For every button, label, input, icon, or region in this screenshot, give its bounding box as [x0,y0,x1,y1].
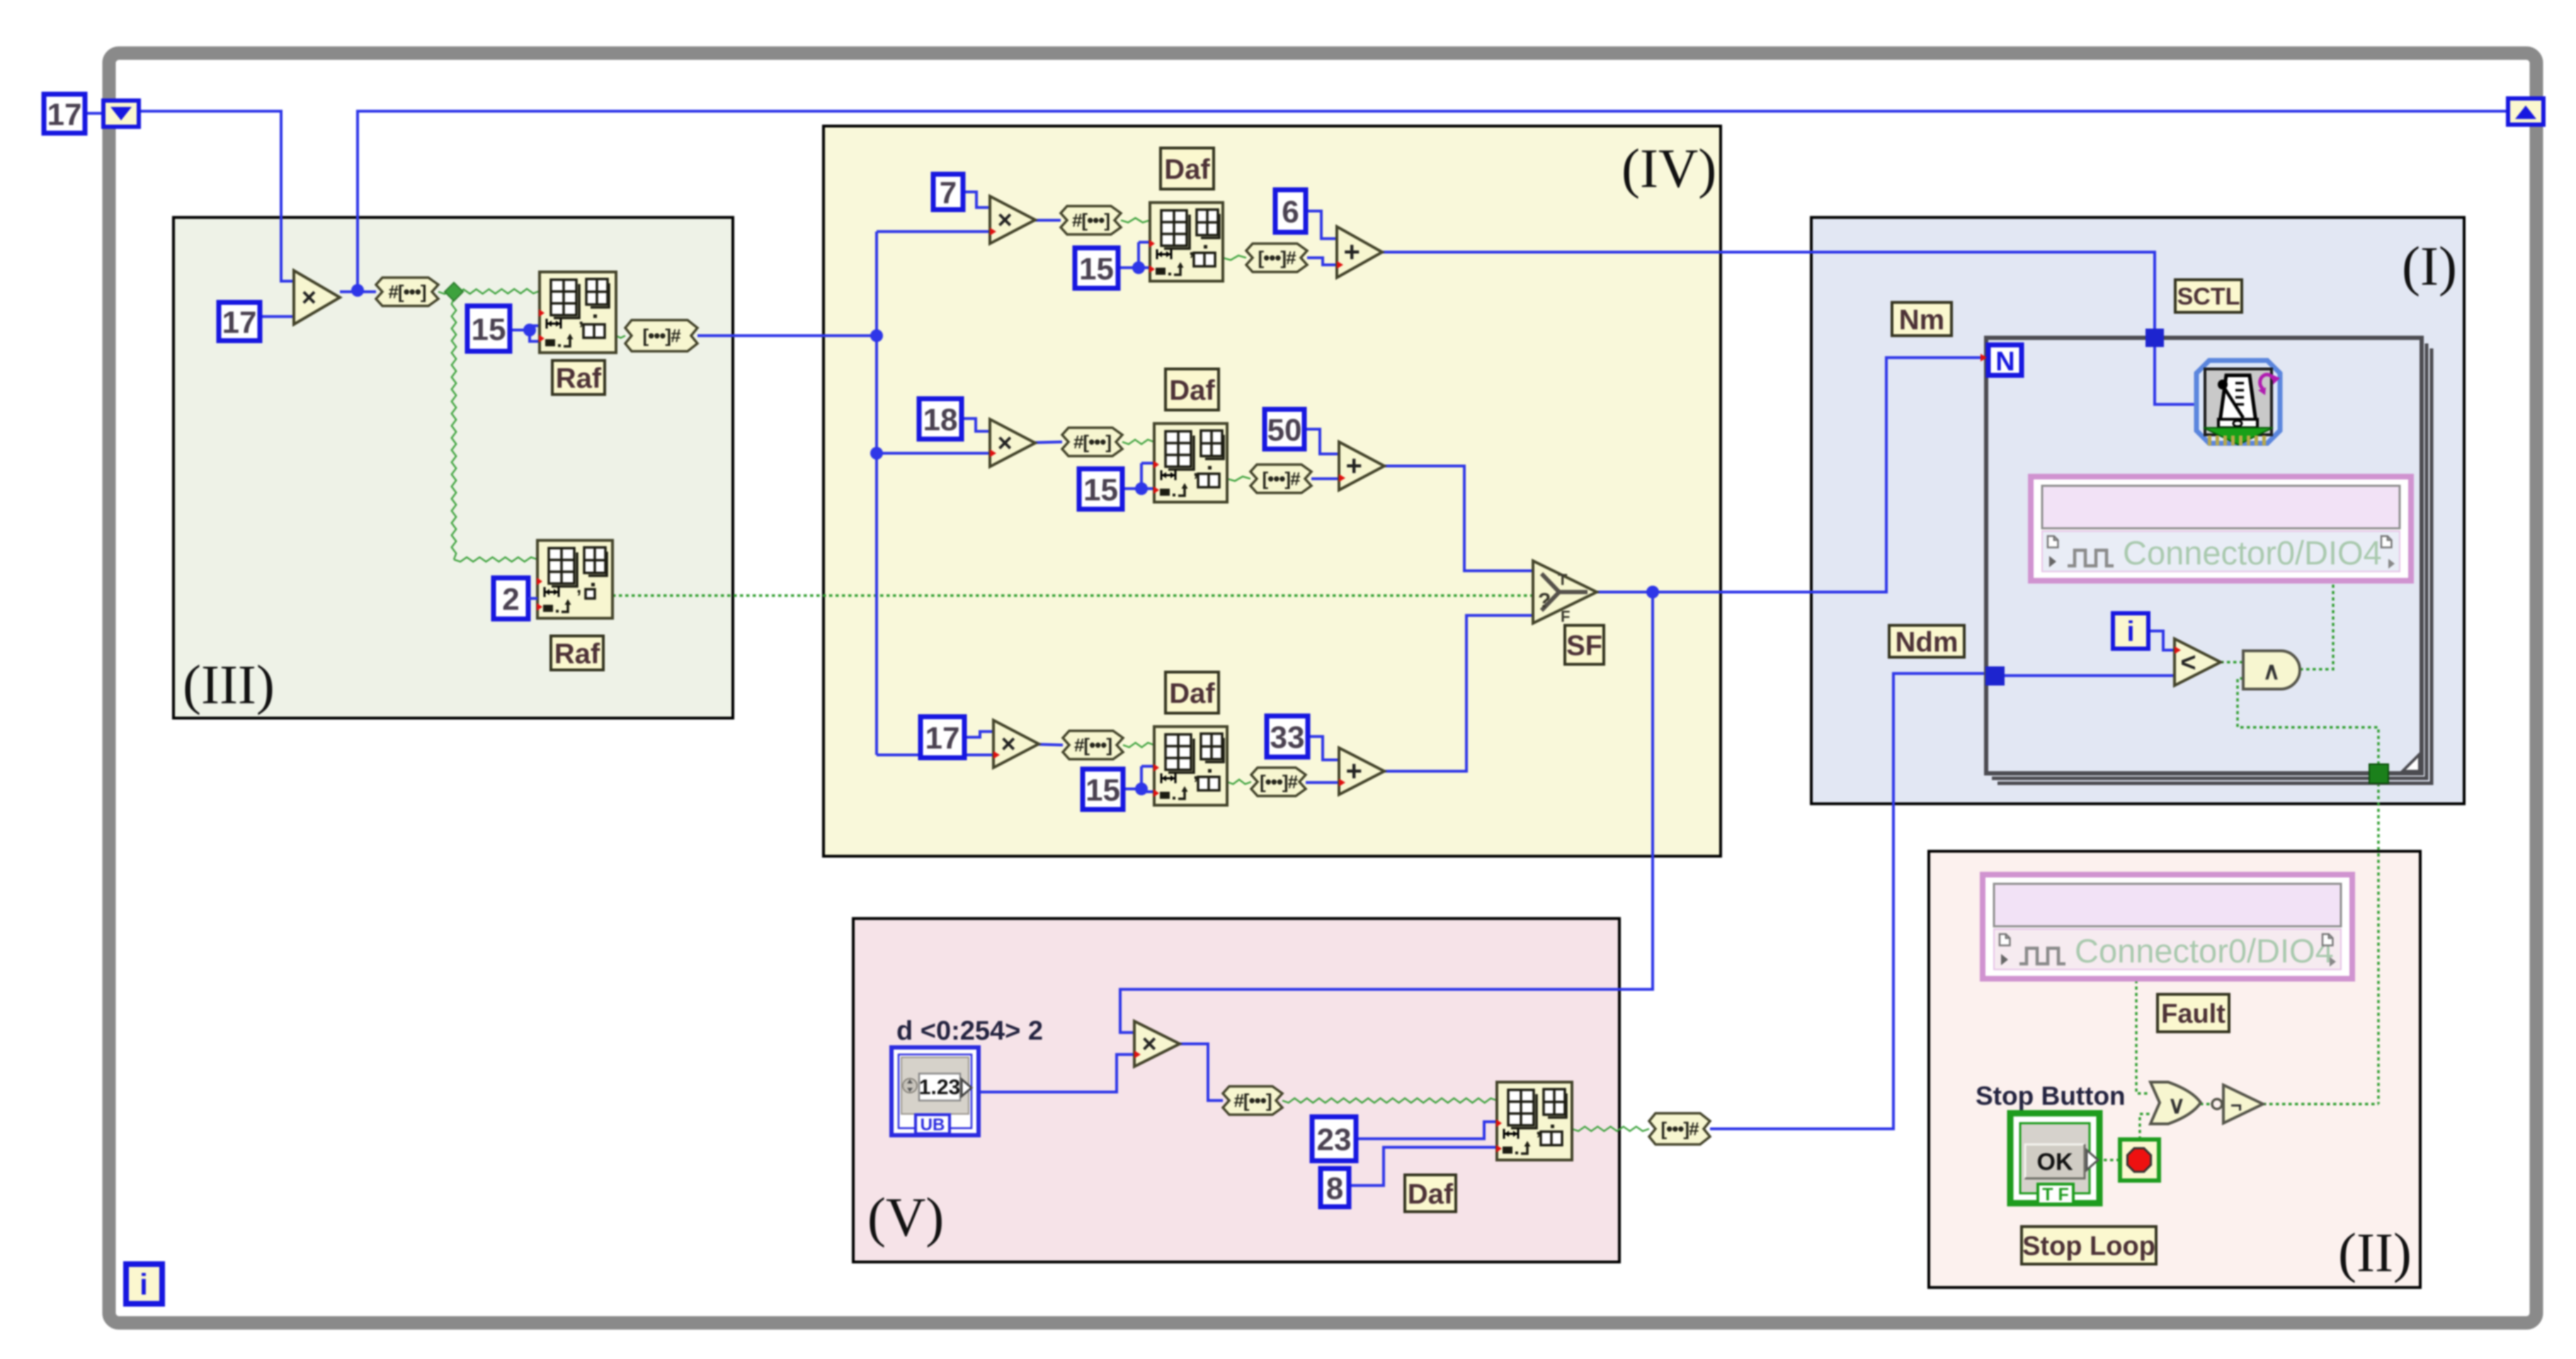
svg-text:Ndm: Ndm [1896,627,1959,658]
svg-text:d <0:254> 2: d <0:254> 2 [896,1016,1043,1046]
svg-text:17: 17 [222,305,257,340]
svg-text:×: × [302,283,317,312]
svg-text:F: F [1561,608,1570,625]
svg-text:?: ? [1538,589,1551,613]
svg-text:[•••]#: [•••]# [642,325,681,346]
svg-text:×: × [998,428,1013,457]
svg-text:15: 15 [1085,773,1120,807]
svg-text:23: 23 [1317,1122,1352,1157]
svg-text:SCTL: SCTL [2177,283,2240,310]
svg-text:,: , [576,576,581,597]
svg-text:×: × [1142,1029,1157,1058]
svg-text:+: + [1345,450,1362,482]
svg-text:[•••]#: [•••]# [1258,247,1296,268]
svg-text:OK: OK [2037,1149,2073,1176]
svg-text:Stop Button: Stop Button [1976,1081,2126,1110]
svg-text:(V): (V) [867,1186,944,1248]
svg-text:∨: ∨ [2168,1092,2186,1119]
svg-text:#[•••]: #[•••] [1233,1090,1271,1111]
svg-text:Connector0/DIO4: Connector0/DIO4 [2075,932,2334,970]
svg-text:[•••]#: [•••]# [1262,468,1301,489]
svg-text:6: 6 [1282,195,1299,229]
svg-text:15: 15 [1083,472,1118,507]
svg-text:(I): (I) [2402,235,2457,297]
svg-text:×: × [1001,729,1016,758]
svg-text:Daf: Daf [1164,154,1210,185]
svg-text:Connector0/DIO4: Connector0/DIO4 [2123,534,2382,572]
svg-text:Fault: Fault [2161,999,2225,1029]
svg-text:Nm: Nm [1899,305,1944,336]
svg-text:#[•••]: #[•••] [1073,431,1111,453]
svg-text:SF: SF [1566,630,1602,661]
svg-text:<: < [2180,648,2196,678]
svg-text:17: 17 [925,721,960,756]
svg-text:Raf: Raf [556,363,602,394]
svg-text:#[•••]: #[•••] [1072,210,1110,231]
svg-text:UB: UB [921,1115,945,1135]
svg-text:+: + [1345,756,1362,787]
svg-text:18: 18 [923,402,958,437]
svg-text:1.23: 1.23 [919,1076,960,1099]
svg-text:Daf: Daf [1408,1178,1454,1210]
svg-text:i: i [2126,616,2134,647]
svg-text:N: N [1995,347,2014,377]
svg-text:#[•••]: #[•••] [388,281,426,302]
svg-text:×: × [998,205,1013,234]
svg-text:[•••]#: [•••]# [1660,1118,1699,1139]
svg-text:∧: ∧ [2263,658,2281,685]
svg-text:8: 8 [1326,1171,1343,1206]
svg-text:7: 7 [940,176,957,210]
svg-text:(IV): (IV) [1622,137,1716,199]
svg-text:(III): (III) [183,654,275,715]
svg-text:#[•••]: #[•••] [1074,734,1112,756]
svg-text:15: 15 [472,312,506,347]
svg-text:Daf: Daf [1169,375,1215,406]
svg-text:Raf: Raf [554,638,600,669]
svg-text:Daf: Daf [1169,678,1215,709]
svg-text:Stop Loop: Stop Loop [2022,1232,2155,1261]
svg-text:T: T [1558,571,1568,588]
svg-text:+: + [1343,237,1360,268]
svg-text:¬: ¬ [2230,1094,2242,1116]
svg-text:15: 15 [1079,251,1114,286]
svg-text:2: 2 [502,582,519,617]
svg-text:i: i [139,1268,148,1301]
svg-text:(II): (II) [2338,1222,2412,1283]
svg-text:[•••]#: [•••]# [1260,771,1299,792]
svg-text:33: 33 [1270,720,1305,755]
svg-text:T F: T F [2042,1185,2069,1205]
svg-text:17: 17 [47,97,82,132]
svg-text:50: 50 [1267,413,1302,448]
